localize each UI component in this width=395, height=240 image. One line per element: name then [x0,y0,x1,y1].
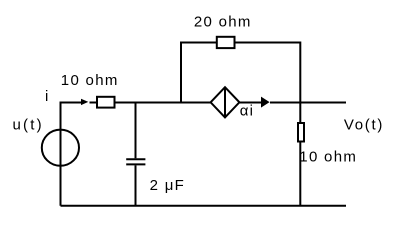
svg-text:Vo(t): Vo(t) [344,116,384,133]
svg-text:u(t): u(t) [13,117,44,134]
svg-text:αi: αi [240,103,255,120]
svg-text:10 ohm: 10 ohm [61,72,119,89]
svg-text:i: i [45,88,50,105]
svg-text:2 μF: 2 μF [150,177,186,194]
svg-text:20 ohm: 20 ohm [194,14,252,31]
svg-text:10 ohm: 10 ohm [299,148,357,165]
